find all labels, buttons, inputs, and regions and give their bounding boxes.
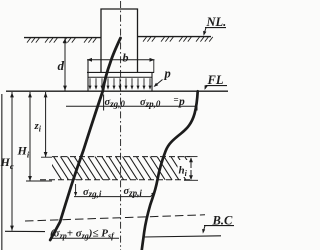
dimension H_c [11, 92, 13, 231]
stress value line at FL level [66, 105, 197, 107]
arrow from sigma_zp,i to curve [151, 193, 155, 197]
svg-text:=: = [174, 95, 179, 105]
down arrow at sigma_zg,i [75, 184, 77, 194]
tick at z_i bottom [41, 156, 52, 158]
dimension z_i [45, 92, 47, 157]
sigma_zg self-weight stress curve (thick line) [50, 38, 120, 240]
tick at sigma_zp,0 [196, 95, 198, 111]
svg-text:d: d [58, 58, 65, 73]
svg-text:b: b [123, 51, 129, 65]
dashed level line above B.C [25, 215, 205, 221]
svg-text:σzp,0: σzp,0 [140, 97, 161, 109]
svg-text:p: p [178, 96, 185, 108]
stress value line at layer i [74, 196, 151, 198]
extension ticks for h_i [185, 156, 198, 158]
dimension H_i [29, 92, 31, 181]
soil layer i hatching [46, 156, 200, 181]
scan edge artifact left border [1, 94, 3, 250]
footing block right edge [151, 72, 153, 90]
dimension h_i (layer thickness) [190, 158, 192, 168]
ground line (NL) right segment [138, 36, 212, 38]
formula underline [50, 237, 119, 239]
tick at sigma_zg,0 [103, 95, 105, 111]
column [101, 9, 138, 72]
dimension d (embedment depth) [64, 38, 66, 90]
svg-text:p: p [164, 67, 171, 81]
centerline of foundation [120, 1, 122, 250]
footing block left edge [87, 60, 89, 91]
footing block top edge [87, 71, 154, 73]
soil layer i band top edge (dashed) [52, 156, 190, 158]
svg-text:σzg,0: σzg,0 [105, 97, 126, 109]
svg-text:NL.: NL. [206, 15, 227, 29]
svg-text:FL: FL [207, 73, 224, 87]
base pressure top line [88, 76, 152, 78]
svg-text:σzp,i: σzp,i [124, 186, 143, 198]
extension line right of b [153, 60, 155, 73]
distributed base pressure arrows p [89, 78, 91, 87]
B.C level line left segment [5, 230, 45, 232]
tick at H_i bottom [26, 180, 52, 182]
label h_i [178, 160, 190, 177]
sigma_zp additional stress curve (thick) [142, 91, 198, 250]
ground hatching right of column [143, 37, 147, 42]
foundation level line (FL) [6, 90, 228, 92]
ground line (NL) left segment [24, 37, 101, 39]
ground hatching left of column [27, 38, 31, 43]
svg-text:σzg,i: σzg,i [83, 187, 102, 199]
soil layer i band bottom edge (dashed) [40, 179, 190, 181]
B.C level line right segment [144, 236, 222, 237]
dimension b (footing width) [87, 59, 155, 61]
